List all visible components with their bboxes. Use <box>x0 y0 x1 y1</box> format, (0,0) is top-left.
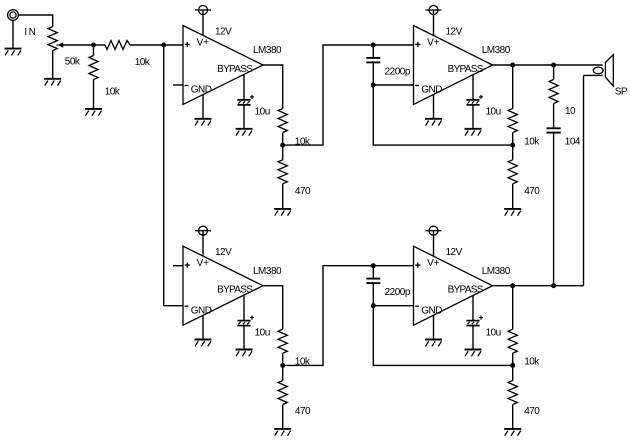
svg-text:470: 470 <box>524 186 540 197</box>
svg-text:GND: GND <box>421 85 442 96</box>
svg-text:10k: 10k <box>295 357 311 368</box>
svg-text:10u: 10u <box>255 327 270 338</box>
svg-text:LM380: LM380 <box>253 45 282 56</box>
svg-text:2200p: 2200p <box>385 67 411 78</box>
svg-text:V+: V+ <box>427 37 440 48</box>
svg-text:12V: 12V <box>215 247 232 258</box>
svg-text:470: 470 <box>295 186 311 197</box>
svg-text:GND: GND <box>421 305 442 316</box>
svg-text:10k: 10k <box>135 57 151 68</box>
svg-text:10k: 10k <box>295 137 311 148</box>
svg-text:12V: 12V <box>446 247 463 258</box>
svg-text:V+: V+ <box>197 258 210 269</box>
svg-text:BYPASS: BYPASS <box>217 285 253 296</box>
svg-text:104: 104 <box>565 137 581 148</box>
svg-text:12V: 12V <box>446 27 463 38</box>
svg-text:BYPASS: BYPASS <box>448 285 484 296</box>
svg-text:SP: SP <box>615 87 628 98</box>
svg-text:10k: 10k <box>524 357 540 368</box>
svg-text:BYPASS: BYPASS <box>448 64 484 75</box>
svg-text:IN: IN <box>24 27 37 38</box>
svg-text:50k: 50k <box>65 57 81 68</box>
svg-text:10k: 10k <box>524 137 540 148</box>
svg-text:10u: 10u <box>255 107 270 118</box>
svg-text:V+: V+ <box>427 258 440 269</box>
svg-text:V+: V+ <box>197 37 210 48</box>
svg-text:10u: 10u <box>486 327 501 338</box>
svg-text:LM380: LM380 <box>253 266 282 277</box>
svg-text:10u: 10u <box>486 107 501 118</box>
svg-text:470: 470 <box>295 406 311 417</box>
svg-text:2200p: 2200p <box>385 287 411 298</box>
svg-text:LM380: LM380 <box>482 266 511 277</box>
svg-text:BYPASS: BYPASS <box>217 64 253 75</box>
svg-text:GND: GND <box>191 85 212 96</box>
svg-text:10k: 10k <box>105 87 121 98</box>
svg-text:470: 470 <box>524 406 540 417</box>
svg-text:10: 10 <box>565 106 576 117</box>
svg-text:LM380: LM380 <box>482 45 511 56</box>
svg-text:12V: 12V <box>215 27 232 38</box>
svg-text:GND: GND <box>191 305 212 316</box>
